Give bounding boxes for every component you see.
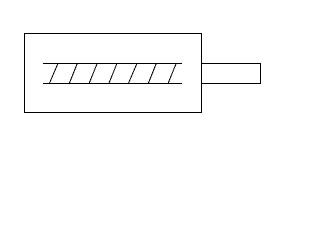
hatched bar top line (43, 63, 182, 65)
hatched bar bottom line (43, 83, 182, 85)
hatch stroke 4 (109, 64, 117, 84)
shaft (small rectangle, open on left side) (201, 63, 261, 84)
hatch stroke 1 (49, 64, 58, 84)
hatch stroke 3 (89, 64, 97, 84)
hatch stroke 6 (148, 64, 156, 84)
hatch stroke 2 (69, 64, 77, 84)
hatch stroke 5 (128, 64, 137, 84)
hatch stroke 7 (168, 64, 176, 84)
housing (outer rectangle body) (25, 34, 202, 113)
